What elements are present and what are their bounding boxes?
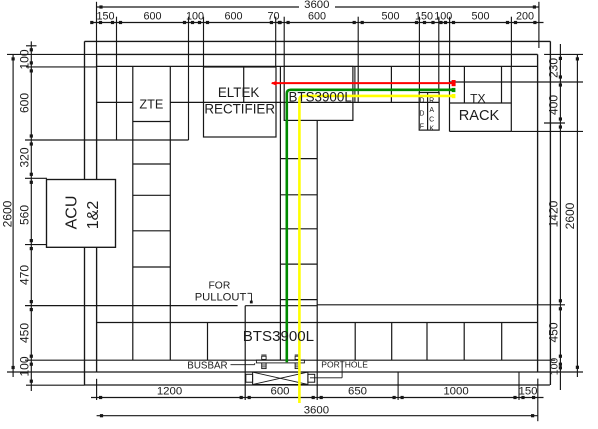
- svg-text:BUSBAR: BUSBAR: [187, 361, 227, 372]
- svg-text:600: 600: [308, 10, 326, 22]
- svg-text:D: D: [419, 98, 424, 105]
- svg-text:470: 470: [18, 265, 32, 285]
- svg-text:1200: 1200: [157, 385, 182, 397]
- svg-text:450: 450: [546, 322, 560, 342]
- svg-text:150: 150: [518, 385, 537, 397]
- svg-text:560: 560: [18, 205, 32, 225]
- svg-text:3600: 3600: [304, 404, 329, 416]
- svg-text:150: 150: [415, 10, 433, 22]
- svg-text:600: 600: [270, 385, 289, 397]
- svg-text:500: 500: [471, 10, 489, 22]
- svg-text:100: 100: [186, 10, 204, 22]
- svg-text:200: 200: [516, 10, 534, 22]
- svg-text:600: 600: [143, 10, 161, 22]
- svg-text:400: 400: [546, 95, 560, 115]
- svg-text:150: 150: [96, 10, 114, 22]
- svg-text:D: D: [419, 111, 424, 118]
- svg-text:BTS3900L: BTS3900L: [289, 89, 352, 104]
- svg-text:650: 650: [348, 385, 367, 397]
- svg-text:C: C: [429, 116, 434, 123]
- svg-text:500: 500: [381, 10, 399, 22]
- svg-text:ACU: ACU: [64, 196, 81, 230]
- svg-text:100: 100: [18, 49, 32, 69]
- svg-text:R: R: [429, 98, 434, 105]
- svg-text:600: 600: [224, 10, 242, 22]
- svg-text:PULLOUT: PULLOUT: [195, 291, 247, 303]
- svg-text:2600: 2600: [1, 200, 15, 227]
- svg-text:ZTE: ZTE: [139, 98, 163, 112]
- svg-text:450: 450: [18, 323, 32, 343]
- svg-text:1&2: 1&2: [85, 201, 102, 230]
- svg-text:100: 100: [434, 10, 452, 22]
- svg-text:1420: 1420: [546, 200, 560, 227]
- svg-text:F: F: [420, 124, 424, 131]
- svg-text:FOR: FOR: [209, 281, 231, 292]
- svg-text:PORTHOLE: PORTHOLE: [321, 359, 368, 369]
- svg-text:BTS3900L: BTS3900L: [243, 328, 314, 345]
- svg-text:70: 70: [267, 10, 279, 22]
- svg-text:A: A: [429, 107, 434, 114]
- svg-text:1000: 1000: [443, 385, 468, 397]
- svg-text:100: 100: [18, 356, 32, 376]
- svg-text:K: K: [429, 126, 434, 133]
- svg-text:320: 320: [18, 147, 32, 167]
- svg-text:230: 230: [546, 58, 560, 78]
- svg-text:600: 600: [18, 93, 32, 113]
- svg-text:TX: TX: [470, 91, 485, 105]
- svg-text:RECTIFIER: RECTIFIER: [204, 102, 275, 117]
- svg-text:RACK: RACK: [459, 108, 500, 124]
- svg-text:ELTEK: ELTEK: [218, 85, 259, 100]
- svg-text:2600: 2600: [563, 202, 577, 229]
- svg-text:100: 100: [548, 358, 560, 376]
